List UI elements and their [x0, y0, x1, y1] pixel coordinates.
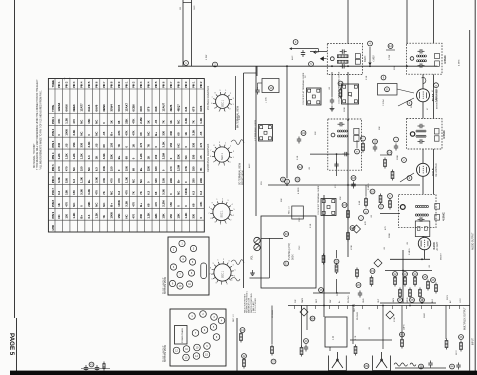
svg-text:47K: 47K	[117, 130, 121, 135]
tube layout chart (bottom view) upper	[168, 237, 209, 295]
svg-text:115V: 115V	[460, 298, 462, 303]
tube position 10 (layout 1)	[177, 283, 183, 289]
svg-text:.01: .01	[329, 86, 331, 90]
svg-text:POWER TRANS: POWER TRANS	[181, 327, 184, 343]
svg-text:4: 4	[231, 204, 233, 206]
tube position 8 (layout 1)	[188, 270, 194, 276]
svg-text:1.2K: 1.2K	[94, 213, 98, 219]
svg-text:.05: .05	[65, 143, 69, 147]
circled ref	[388, 44, 393, 49]
svg-text:15K: 15K	[340, 196, 342, 200]
resistor tone R51	[404, 276, 407, 287]
circled ref	[368, 41, 373, 46]
svg-text:VOL: VOL	[252, 255, 254, 260]
wire: volume drop	[323, 195, 325, 317]
svg-text:4: 4	[232, 264, 234, 266]
svg-text:3: 3	[233, 151, 235, 153]
tube position 3 (layout 2)	[211, 314, 218, 321]
resistor interlock	[103, 362, 105, 371]
svg-text:100K: 100K	[397, 155, 399, 160]
svg-text:.05: .05	[102, 131, 106, 135]
junction	[406, 65, 408, 67]
ref C31	[373, 139, 378, 144]
svg-text:SEC 1.3: SEC 1.3	[354, 303, 356, 312]
capacitor T2 top	[418, 49, 425, 53]
svg-text:6W6: 6W6	[199, 105, 203, 111]
wire: drop 7	[301, 306, 303, 348]
wire: B+ top rail	[178, 65, 438, 67]
wire: drop 1	[306, 306, 308, 331]
svg-text:NC: NC	[184, 155, 188, 159]
svg-text:3. TV 4. PHONO: 3. TV 4. PHONO	[255, 298, 257, 313]
svg-text:12BA6: 12BA6	[57, 102, 61, 111]
svg-text:PIN 3: PIN 3	[140, 81, 143, 88]
svg-text:68: 68	[139, 132, 143, 136]
svg-text:DET: DET	[316, 298, 318, 303]
svg-text:†: †	[64, 77, 66, 81]
tube position 13 (layout 2)	[183, 354, 190, 361]
svg-text:117V: 117V	[456, 350, 458, 355]
resistor R62	[300, 346, 303, 357]
border: bottom black bar	[10, 371, 477, 375]
svg-text:3: 3	[227, 283, 229, 285]
svg-text:PIN 8: PIN 8	[51, 199, 55, 206]
svg-text:68: 68	[191, 203, 195, 207]
svg-text:0: 0	[124, 145, 128, 147]
svg-text:6.3: 6.3	[94, 167, 98, 171]
svg-text:PIN 6: PIN 6	[51, 176, 55, 183]
svg-text:1 MEG: 1 MEG	[409, 248, 411, 255]
T2 trimmer a	[435, 53, 440, 58]
svg-text:4A: 4A	[389, 44, 392, 48]
tube position 14 (layout 2)	[193, 353, 200, 360]
tube layout chart (bottom view) lower	[170, 309, 226, 366]
capacitor T3 drop	[334, 162, 338, 169]
svg-text:3.3K: 3.3K	[72, 130, 76, 136]
ref on 348 line a	[342, 203, 347, 208]
ref lim c	[364, 209, 369, 214]
svg-text:270K: 270K	[394, 317, 396, 322]
svg-text:6.3: 6.3	[87, 214, 91, 218]
svg-text:7K: 7K	[117, 144, 121, 148]
svg-text:470: 470	[169, 166, 173, 171]
svg-text:330: 330	[79, 142, 83, 147]
svg-text:15K: 15K	[65, 190, 69, 195]
tube position 5 (layout 2)	[210, 324, 217, 331]
ref T3 slug	[331, 133, 335, 137]
tube position 1 (layout 2)	[189, 313, 196, 320]
svg-text:500K: 500K	[389, 233, 391, 238]
bias network box	[378, 84, 398, 96]
capacitor AC line	[456, 363, 460, 370]
T1 trimmer a	[355, 54, 360, 59]
T4 coil lower	[416, 135, 426, 137]
svg-text:.05: .05	[407, 241, 409, 245]
junction	[347, 184, 349, 186]
T2 coil lower	[417, 60, 427, 62]
svg-text:47K: 47K	[102, 178, 106, 183]
svg-text:.01: .01	[371, 214, 373, 218]
svg-text:PIN 9: PIN 9	[185, 81, 188, 88]
ref det b	[295, 177, 300, 182]
ref interlock	[89, 362, 94, 367]
wire: lower rail	[288, 305, 470, 307]
border: right margin rule	[474, 0, 476, 371]
ref C41	[356, 283, 361, 288]
svg-text:1.2K: 1.2K	[124, 177, 128, 183]
svg-text:a: a	[435, 84, 437, 87]
svg-text:330: 330	[57, 142, 61, 147]
svg-text:7K: 7K	[191, 120, 195, 124]
svg-text:INTERCARRIER AMP: INTERCARRIER AMP	[436, 88, 439, 109]
svg-text:330: 330	[191, 154, 195, 159]
junction	[402, 270, 404, 272]
svg-text:9: 9	[383, 76, 385, 80]
svg-text:68: 68	[124, 156, 128, 160]
svg-text:1.5K: 1.5K	[366, 75, 368, 80]
wire	[424, 250, 426, 259]
svg-text:NC: NC	[57, 215, 61, 219]
svg-text:PIN 5: PIN 5	[88, 81, 91, 88]
svg-text:10: 10	[179, 285, 182, 288]
svg-text:15K: 15K	[87, 119, 91, 124]
svg-text:7K: 7K	[132, 191, 136, 195]
svg-text:47K: 47K	[57, 119, 61, 124]
capacitor interlock a	[84, 365, 88, 372]
svg-text:1.2K: 1.2K	[199, 118, 203, 124]
svg-text:22K: 22K	[124, 119, 128, 124]
tube position 5 (layout 1)	[189, 259, 195, 265]
wire V11 cathode diag	[400, 173, 414, 182]
svg-text:470: 470	[124, 190, 128, 195]
svg-text:220K: 220K	[344, 107, 346, 112]
svg-text:22K: 22K	[199, 178, 203, 183]
junction	[331, 65, 333, 67]
svg-text:3.9K: 3.9K	[297, 155, 299, 160]
svg-text:150: 150	[65, 213, 69, 218]
svg-text:OUT: OUT	[378, 298, 380, 303]
svg-text:SEC 1: SEC 1	[221, 210, 224, 218]
svg-text:100K: 100K	[65, 129, 69, 136]
svg-text:330: 330	[154, 166, 158, 171]
svg-text:470: 470	[132, 213, 136, 218]
svg-text:6T8: 6T8	[191, 106, 195, 111]
wire stub	[380, 154, 392, 156]
resistor tone R53	[399, 288, 402, 299]
svg-text:470: 470	[385, 226, 387, 230]
ref det c	[301, 131, 306, 136]
svg-text:22K: 22K	[169, 178, 173, 183]
capacitor out	[428, 361, 432, 368]
svg-text:15: 15	[205, 354, 208, 357]
svg-text:7K: 7K	[199, 168, 203, 172]
resistor on 348 line a	[347, 209, 350, 220]
svg-text:13: 13	[185, 357, 188, 360]
svg-text:2: 2	[230, 220, 232, 222]
capacitor C32	[351, 182, 355, 189]
svg-text:2: 2	[229, 162, 231, 164]
resistor lim b	[365, 197, 368, 208]
tube position 10 (layout 2)	[194, 344, 201, 351]
svg-text:3: 3	[227, 200, 229, 202]
svg-text:d: d	[409, 176, 411, 180]
svg-text:5: 5	[235, 270, 237, 272]
wire: drop to 4.5MC trap	[406, 0, 408, 44]
svg-text:PIN 9: PIN 9	[118, 81, 121, 88]
capacitor	[255, 88, 259, 95]
ref R34	[379, 204, 384, 209]
svg-text:3.3K: 3.3K	[87, 142, 91, 148]
svg-text:0: 0	[184, 145, 188, 147]
svg-text:SPKR: SPKR	[407, 297, 409, 303]
svg-text:B+: B+	[109, 203, 113, 207]
svg-text:2: 2	[202, 313, 204, 316]
svg-text:4: 4	[182, 258, 184, 261]
svg-text:36A: 36A	[310, 317, 315, 321]
svg-text:0: 0	[162, 169, 166, 171]
wire stub	[365, 185, 367, 196]
discriminator transformer T5 (dashed shield)	[399, 194, 437, 227]
svg-text:5: 5	[216, 283, 218, 285]
T5 coil lower	[415, 214, 428, 216]
tube position 7 (layout 1)	[177, 271, 183, 277]
svg-text:6.3: 6.3	[87, 155, 91, 159]
resistor tone R56	[427, 280, 430, 291]
svg-text:46MC: 46MC	[364, 55, 367, 62]
svg-text:† THIS READING WILL VARY DEPEN: † THIS READING WILL VARY DEPENDING UPON …	[36, 79, 39, 170]
svg-text:1: 1	[191, 315, 193, 318]
svg-text:1: 1	[234, 275, 236, 277]
wire: tuner inner vertical	[235, 76, 237, 130]
ref T1 slug	[330, 57, 334, 61]
svg-text:NC: NC	[139, 179, 143, 183]
svg-text:8: 8	[214, 92, 216, 94]
svg-text:RESISTANCE READINGS: RESISTANCE READINGS	[207, 143, 210, 172]
svg-text:PIN 2: PIN 2	[133, 81, 136, 88]
svg-text:COLOR KIT AT TERMINAL GUIDE: COLOR KIT AT TERMINAL GUIDE	[338, 71, 341, 104]
svg-text:1: 1	[233, 215, 235, 217]
svg-text:0: 0	[177, 205, 181, 207]
svg-text:PIN 2: PIN 2	[51, 128, 55, 135]
svg-text:330: 330	[191, 166, 195, 171]
svg-text:3: 3	[233, 98, 235, 100]
resistor tone R57	[435, 283, 438, 294]
svg-text:3.3K: 3.3K	[79, 189, 83, 195]
svg-text:68: 68	[154, 191, 158, 195]
svg-text:470: 470	[57, 166, 61, 171]
tube position 9 (layout 1)	[169, 280, 175, 286]
svg-text:0: 0	[199, 217, 203, 219]
ref R29	[420, 298, 425, 303]
svg-text:NC: NC	[94, 120, 98, 124]
wire: box to jack	[329, 347, 331, 351]
rail tick	[329, 306, 331, 310]
svg-text:OSC: OSC	[299, 217, 301, 222]
svg-text:33K: 33K	[281, 198, 283, 202]
svg-text:6: 6	[173, 266, 175, 269]
svg-text:10: 10	[196, 347, 199, 350]
svg-text:470: 470	[139, 142, 143, 147]
ref det a	[281, 177, 286, 182]
T4 trimmer b	[434, 136, 439, 141]
wire: drop 3	[382, 306, 384, 350]
svg-text:7: 7	[211, 97, 213, 99]
resistor vol2	[322, 254, 325, 265]
svg-text:68: 68	[132, 168, 136, 172]
rail tick	[392, 306, 394, 310]
wire: vol feed	[313, 292, 350, 294]
wire: drop 2	[352, 306, 354, 345]
layout 2: transformer outline	[175, 326, 188, 345]
ref R31	[387, 150, 392, 155]
capacitor det	[297, 137, 301, 144]
resistor R61	[271, 345, 274, 356]
capacitor T1 bottom	[340, 64, 347, 68]
sound take-off transformer T2 (dashed shield)	[407, 43, 443, 74]
svg-text:2: 2	[231, 280, 233, 282]
svg-text:PIN 2: PIN 2	[66, 81, 69, 88]
svg-text:OHM: OHM	[194, 5, 196, 10]
wire	[422, 176, 424, 194]
svg-text:NC: NC	[147, 132, 151, 136]
svg-text:11: 11	[188, 283, 191, 286]
svg-text:0: 0	[132, 157, 136, 159]
svg-text:470: 470	[94, 190, 98, 195]
tube position 2 (layout 1)	[170, 246, 176, 252]
tube position 12 (layout 2)	[173, 347, 180, 354]
disc sec trimmer b	[425, 227, 428, 231]
border: left margin rule upper	[14, 0, 16, 318]
resistor R41	[370, 276, 373, 287]
junction	[382, 305, 384, 307]
layout 1: fuse/plug outline	[201, 263, 207, 279]
svg-text:B+: B+	[139, 167, 143, 171]
svg-text:15K: 15K	[124, 166, 128, 171]
capacitor	[301, 50, 305, 57]
tube position 11 (layout 2)	[183, 346, 190, 353]
svg-text:HTR: HTR	[51, 225, 55, 231]
svg-text:68: 68	[177, 132, 181, 136]
rail tick	[362, 306, 364, 310]
ref C2	[213, 62, 218, 67]
ref near V10 a	[434, 83, 439, 88]
tube position 2 (layout 2)	[200, 311, 207, 318]
capacitor T1 top	[340, 49, 347, 53]
svg-text:B+: B+	[154, 132, 158, 136]
terminal guide: L.T	[307, 88, 322, 105]
svg-text:PIN 7: PIN 7	[51, 188, 55, 195]
svg-text:NC: NC	[72, 203, 76, 207]
T3 coil upper	[337, 130, 347, 132]
ref R24	[413, 272, 418, 277]
svg-text:4: 4	[220, 224, 222, 226]
T5 slug (dark)	[400, 205, 405, 210]
wire: tone drop	[402, 250, 404, 303]
svg-text:6U8: 6U8	[139, 106, 143, 112]
T1 trimmer b	[355, 59, 360, 64]
svg-text:6.3: 6.3	[191, 191, 195, 195]
svg-text:f: f	[363, 137, 364, 141]
junction	[369, 65, 371, 67]
ref near V11 b	[407, 176, 412, 181]
svg-text:LAFS: LAFS	[403, 324, 406, 330]
diode arrow at T1 left	[321, 57, 327, 61]
resistor on 348 line b	[347, 231, 350, 242]
wire: sound IF chain b	[433, 149, 435, 194]
svg-text:.02: .02	[429, 264, 431, 268]
svg-text:150: 150	[109, 166, 113, 171]
wire V10 cathode diag	[398, 98, 414, 106]
svg-text:100K: 100K	[117, 200, 121, 207]
svg-text:47: 47	[427, 107, 429, 110]
svg-text:470: 470	[109, 178, 113, 183]
svg-text:PIN 5: PIN 5	[51, 164, 55, 171]
wire	[422, 149, 424, 163]
svg-text:22K: 22K	[154, 213, 158, 218]
svg-text:3: 3	[295, 40, 297, 44]
wire: drop 5	[445, 306, 447, 340]
svg-text:16UF: 16UF	[424, 312, 426, 318]
svg-text:4: 4	[369, 42, 371, 46]
disc sec trimmer a	[417, 227, 420, 231]
svg-text:7: 7	[210, 150, 212, 152]
ref on top rail	[309, 62, 314, 67]
svg-text:470: 470	[65, 202, 69, 207]
table: tube voltage & resistance chart	[48, 79, 204, 233]
ref lim e	[394, 137, 399, 142]
ref tuning a	[284, 232, 289, 237]
svg-text:PIN 1: PIN 1	[58, 81, 61, 88]
rail tick	[421, 306, 423, 310]
resistor vol	[335, 263, 338, 274]
svg-text:100K: 100K	[184, 188, 188, 195]
ref speaker	[364, 364, 369, 369]
svg-text:TAPE: TAPE	[301, 297, 304, 303]
IF transformer T1 (dashed shield)	[327, 43, 362, 74]
wire: T2 to V10	[422, 74, 424, 88]
svg-text:6BN6: 6BN6	[102, 104, 106, 112]
svg-text:6X8: 6X8	[154, 106, 158, 111]
wire: AGC drop	[286, 66, 288, 178]
svg-text:1K: 1K	[109, 120, 113, 124]
svg-text:470: 470	[154, 202, 158, 207]
terminal guide: aux	[259, 125, 273, 142]
svg-text:6.3: 6.3	[147, 191, 151, 195]
svg-text:9: 9	[206, 345, 208, 348]
svg-text:15K: 15K	[117, 213, 121, 218]
svg-text:SEC 1.3: SEC 1.3	[289, 206, 291, 214]
svg-text:g: g	[365, 211, 367, 214]
wire: tuner top jog	[244, 72, 257, 74]
capacitor T4 top	[418, 124, 425, 128]
svg-text:47K: 47K	[199, 202, 203, 207]
svg-text:PHONO: PHONO	[272, 310, 274, 318]
small relay box w/ ref	[262, 79, 279, 93]
ref det mid	[298, 165, 303, 170]
wire	[423, 236, 425, 239]
wire: output rail	[350, 339, 392, 341]
svg-text:3: 3	[228, 261, 230, 263]
svg-text:500K: 500K	[291, 254, 294, 260]
svg-text:100K: 100K	[109, 212, 113, 219]
svg-text:0: 0	[184, 181, 188, 183]
coil 2	[410, 363, 416, 366]
resistor under T1	[339, 88, 342, 99]
capacitor interlock b	[95, 365, 99, 372]
circled ref	[269, 86, 274, 91]
wire: drop to 4.5MC trap b	[433, 0, 435, 43]
svg-text:NC: NC	[94, 203, 98, 207]
